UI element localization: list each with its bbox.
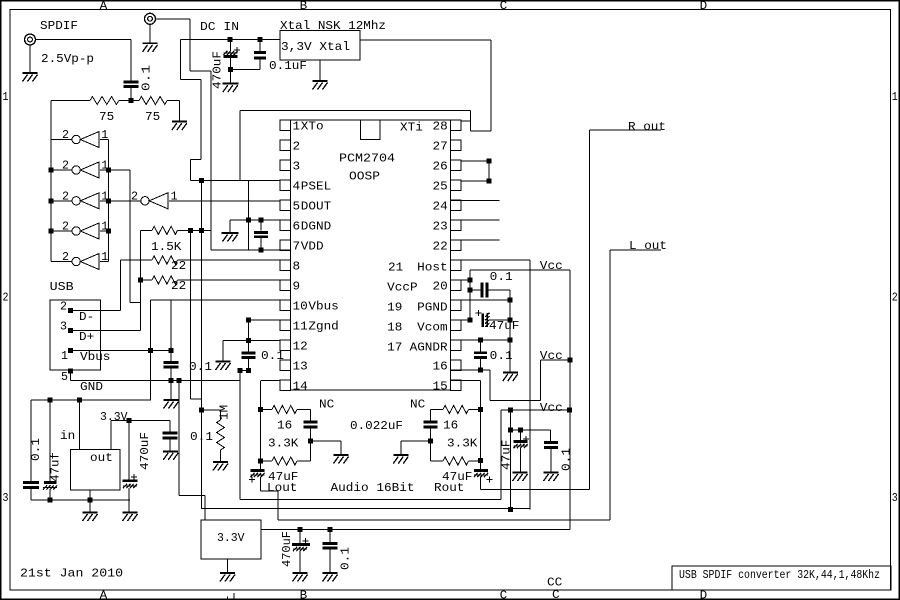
svg-text:22: 22 [433, 240, 448, 254]
svg-text:3: 3 [60, 320, 67, 334]
svg-text:out: out [90, 451, 113, 465]
svg-text:NC: NC [410, 398, 425, 412]
svg-text:11: 11 [293, 320, 308, 334]
svg-text:26: 26 [433, 160, 448, 174]
svg-text:Lout: Lout [267, 481, 297, 495]
svg-text:15: 15 [433, 380, 448, 394]
svg-text:1: 1 [101, 128, 108, 142]
svg-text:12: 12 [293, 340, 308, 354]
svg-text:24: 24 [433, 200, 448, 214]
svg-text:VDD: VDD [301, 240, 324, 254]
svg-text:C: C [552, 588, 560, 600]
svg-text:AGNDR: AGNDR [410, 341, 448, 355]
svg-text:22: 22 [171, 279, 186, 293]
svg-text:Zgnd: Zgnd [308, 320, 338, 334]
svg-text:75: 75 [145, 110, 160, 124]
svg-text:2: 2 [131, 189, 138, 203]
svg-text:470uF: 470uF [138, 432, 152, 470]
svg-text:Vbus: Vbus [308, 300, 338, 314]
svg-text:0.1: 0.1 [261, 349, 284, 363]
svg-text:3.3K: 3.3K [268, 437, 299, 451]
svg-text:1M: 1M [218, 405, 232, 420]
svg-text:Vcc: Vcc [540, 401, 563, 415]
svg-text:5: 5 [293, 200, 301, 214]
svg-text:2: 2 [892, 291, 898, 305]
svg-text:2: 2 [62, 159, 69, 173]
svg-text:13: 13 [293, 360, 308, 374]
svg-text:23: 23 [433, 220, 448, 234]
svg-text:SPDIF: SPDIF [40, 19, 78, 33]
svg-text:D+: D+ [79, 330, 94, 344]
svg-text:VccP: VccP [387, 281, 417, 295]
svg-text:C: C [500, 589, 508, 600]
svg-text:2: 2 [62, 189, 69, 203]
svg-text:17: 17 [387, 341, 402, 355]
svg-text:3: 3 [3, 491, 9, 505]
svg-text:1: 1 [892, 90, 898, 104]
svg-text:1: 1 [3, 90, 9, 104]
svg-text:0.1: 0.1 [29, 438, 43, 461]
svg-text:28: 28 [433, 120, 448, 134]
svg-text:3,3V Xtal: 3,3V Xtal [281, 40, 350, 54]
svg-text:in: in [60, 429, 75, 443]
svg-text:OOSP: OOSP [349, 170, 380, 184]
svg-text:DGND: DGND [301, 220, 331, 234]
svg-text:2: 2 [293, 140, 301, 154]
svg-text:1.5K: 1.5K [151, 240, 182, 254]
svg-text:Vcc: Vcc [540, 349, 563, 363]
svg-text:10: 10 [293, 300, 308, 314]
svg-text:B: B [300, 0, 308, 13]
svg-text:1: 1 [61, 349, 68, 363]
svg-text:A: A [100, 0, 108, 13]
svg-text:2: 2 [62, 220, 69, 234]
svg-text:22: 22 [171, 259, 186, 273]
svg-text:3.3V: 3.3V [100, 410, 128, 424]
svg-text:1: 1 [101, 250, 108, 264]
svg-text:16: 16 [433, 360, 448, 374]
svg-text:47uF: 47uF [489, 319, 519, 333]
svg-text:2: 2 [62, 250, 69, 264]
svg-text:2: 2 [60, 300, 67, 314]
svg-text:USB SPDIF converter 32K,44,1,4: USB SPDIF converter 32K,44,1,48Khz [679, 568, 880, 582]
svg-text:0.1uF: 0.1uF [269, 59, 307, 73]
svg-text:PCM2704: PCM2704 [339, 152, 395, 166]
svg-text:L out: L out [629, 239, 667, 253]
svg-text:18: 18 [387, 321, 402, 335]
svg-text:47uf: 47uf [49, 452, 63, 482]
svg-text:6: 6 [293, 220, 301, 234]
svg-text:Vcc: Vcc [540, 259, 563, 273]
svg-text:A: A [100, 589, 108, 600]
svg-text:0.1: 0.1 [140, 65, 154, 91]
svg-text:0.1: 0.1 [339, 547, 353, 570]
svg-text:19: 19 [387, 301, 402, 315]
svg-text:B: B [300, 589, 308, 600]
svg-text:1: 1 [293, 120, 301, 134]
svg-text:0.022uF: 0.022uF [350, 419, 403, 433]
svg-text:0.1: 0.1 [490, 270, 513, 284]
svg-text:2.5Vp-p: 2.5Vp-p [41, 52, 94, 66]
svg-text:0.1: 0.1 [190, 430, 213, 444]
svg-text:14: 14 [293, 380, 308, 394]
svg-text:0.1: 0.1 [189, 360, 212, 374]
svg-text:1: 1 [171, 189, 178, 203]
svg-text:2: 2 [3, 291, 9, 305]
svg-text:Rout: Rout [434, 481, 464, 495]
svg-text:3.3V: 3.3V [217, 531, 245, 545]
svg-text:D-: D- [79, 310, 94, 324]
svg-text:XTi: XTi [400, 121, 423, 135]
svg-text:0.1: 0.1 [490, 349, 513, 363]
svg-text:DOUT: DOUT [301, 200, 331, 214]
svg-text:27: 27 [433, 140, 448, 154]
svg-text:2: 2 [62, 128, 69, 142]
svg-text:8: 8 [293, 260, 301, 274]
svg-text:7: 7 [293, 240, 301, 254]
svg-text:GND: GND [80, 380, 103, 394]
svg-text:16: 16 [443, 419, 458, 433]
svg-text:470uF: 470uF [280, 531, 294, 567]
svg-text:PSEL: PSEL [301, 180, 331, 194]
svg-text:470uF: 470uF [211, 51, 225, 89]
svg-text:XTo: XTo [301, 120, 324, 134]
svg-text:3: 3 [892, 491, 898, 505]
svg-text:USB: USB [50, 280, 74, 294]
svg-text:3: 3 [293, 160, 301, 174]
svg-text:Audio 16Bit: Audio 16Bit [331, 481, 415, 495]
svg-text:9: 9 [293, 280, 301, 294]
svg-text:25: 25 [433, 180, 448, 194]
svg-text:5: 5 [61, 370, 68, 384]
svg-text:Vcom: Vcom [417, 321, 447, 335]
svg-text:20: 20 [433, 280, 448, 294]
svg-text:16: 16 [277, 419, 292, 433]
svg-text:PGND: PGND [417, 301, 447, 315]
svg-text:D: D [700, 0, 708, 13]
svg-text:47uF: 47uF [500, 440, 514, 470]
svg-text:75: 75 [99, 110, 114, 124]
svg-text:3.3K: 3.3K [447, 437, 478, 451]
svg-text:DC IN: DC IN [200, 20, 239, 34]
svg-text:4: 4 [293, 180, 301, 194]
svg-text:21: 21 [388, 261, 403, 275]
svg-text:21st Jan 2010: 21st Jan 2010 [20, 567, 123, 581]
svg-text:Vbus: Vbus [80, 350, 110, 364]
svg-text:Host: Host [417, 261, 447, 275]
svg-text:0.1: 0.1 [560, 448, 574, 471]
svg-text:NC: NC [319, 398, 334, 412]
svg-text:C: C [500, 0, 508, 13]
svg-text:R out: R out [628, 120, 666, 134]
